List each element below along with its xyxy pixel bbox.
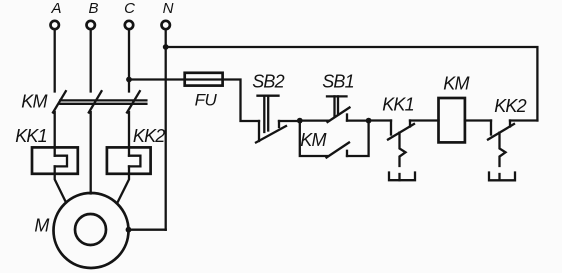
wire top rail to right [166, 47, 538, 121]
svg-text:A: A [50, 0, 61, 17]
wire pole C to heater [128, 112, 130, 156]
pushbutton SB2 [252, 72, 286, 143]
svg-text:SB1: SB1 [322, 72, 354, 92]
wire neutral N drop [165, 30, 167, 230]
pushbutton SB1 [300, 72, 369, 123]
node SB1 left [297, 118, 303, 124]
svg-text:B: B [88, 0, 98, 17]
terminal C [124, 0, 135, 29]
terminal A [50, 0, 61, 29]
node N top junction [163, 44, 169, 50]
svg-text:SB2: SB2 [252, 72, 284, 92]
wire node to KK1 contact [369, 119, 391, 121]
wire KK1 to coil KM [410, 119, 439, 121]
wire pole B to motor [90, 112, 92, 194]
svg-text:KK2: KK2 [494, 96, 526, 116]
terminal N [162, 0, 174, 29]
contact KK2 thermal relay [488, 96, 527, 166]
contact KK1 thermal relay [382, 95, 414, 167]
svg-text:KK2: KK2 [133, 126, 165, 146]
wire C tap to fuse [129, 78, 185, 80]
wire fuse to SB2 [223, 80, 259, 122]
fuse FU [185, 73, 223, 110]
node SB1 right [366, 118, 372, 124]
wire heater KK2 to motor [118, 166, 130, 202]
wire phase A drop [54, 30, 56, 92]
release KK2 [489, 173, 515, 181]
contact KM auxiliary [300, 121, 369, 158]
svg-text:FU: FU [195, 91, 218, 110]
thermal heater KK1 [15, 126, 78, 174]
node C fuse tap [126, 77, 132, 83]
svg-text:KK1: KK1 [15, 126, 47, 146]
wire pole A to heater [54, 112, 56, 156]
wire SB2 to SB1 node [279, 120, 300, 122]
wire phase B drop [90, 30, 92, 92]
svg-text:N: N [163, 0, 174, 17]
svg-text:KM: KM [21, 92, 47, 112]
svg-text:C: C [124, 0, 135, 17]
thermal heater KK2 [107, 126, 165, 174]
node motor star point [126, 227, 132, 233]
wire phase C drop [128, 30, 130, 92]
contactor KM main contacts [21, 91, 146, 112]
svg-text:KK1: KK1 [382, 95, 414, 115]
terminal B [87, 0, 99, 29]
coil KM [439, 74, 470, 143]
wire heater KK1 to motor [55, 166, 66, 202]
svg-text:KM: KM [300, 130, 326, 150]
wire coil to KK2 contact [465, 119, 491, 121]
wire motor to neutral [129, 229, 166, 231]
svg-text:M: M [34, 216, 49, 236]
motor M [34, 193, 128, 268]
wire KK2 to right rail [510, 119, 537, 121]
release KK1 [389, 173, 415, 181]
svg-text:KM: KM [443, 74, 469, 94]
